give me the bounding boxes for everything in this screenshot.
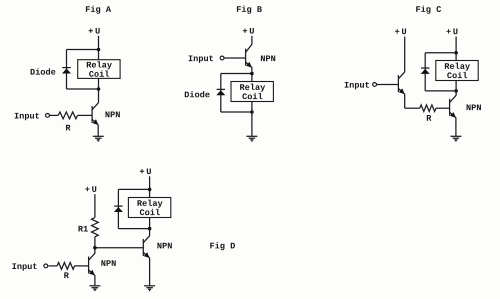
node junction R1 (Fig D) (93, 246, 97, 250)
label R (Fig A) (66, 125, 71, 131)
wire input to resistor (Fig A) (50, 114, 59, 116)
wire +U to collector (Fig B) (251, 36, 253, 45)
wire emitter to resistor (Fig C) (405, 107, 420, 109)
wire resistor to base Q5 (Fig D) (75, 265, 89, 267)
node junction top (Fig C) (454, 51, 458, 55)
label Fig A (86, 6, 111, 14)
resistor R (Fig A) (58, 112, 77, 119)
wire relay bottom to collector (Fig A) (98, 78, 100, 103)
ground (Fig C) (450, 136, 461, 141)
wire top horizontal to diode (Fig D) (118, 188, 149, 190)
net +U (Fig B) (243, 28, 254, 34)
net +U right (Fig C) (446, 29, 457, 35)
ground (Fig B) (246, 136, 257, 141)
wire bottom horizontal to diode (Fig A) (67, 88, 99, 90)
wire +U to R1 (Fig D) (94, 194, 96, 218)
wire input to base (Fig B) (224, 57, 245, 59)
resistor R (Fig C) (420, 105, 436, 112)
wire diode branch vertical (Fig B) (220, 74, 222, 113)
node junction bottom (Fig D) (148, 227, 152, 231)
wire +U to collector Q3 (Fig C) (404, 37, 406, 72)
ground left (Fig D) (89, 286, 100, 291)
label Input (Fig D) (12, 263, 36, 271)
diode D3 flyback (Fig C) (421, 68, 430, 74)
wire node to base Q6 (Fig D) (95, 247, 143, 249)
wire diode branch vertical (Fig D) (117, 189, 119, 228)
node junction top (Fig A) (97, 48, 101, 52)
ground right (Fig D) (144, 286, 155, 291)
wire relay bottom to ground (Fig B) (251, 102, 253, 136)
net +U relay (Fig D) (140, 168, 151, 174)
relay coil K3 box (Fig C) (436, 61, 478, 81)
input terminal (Fig B) (220, 56, 224, 60)
wire input to base Q3 (Fig C) (377, 84, 399, 86)
wire relay bottom to collector Q4 (Fig C) (455, 81, 457, 96)
label Diode (Fig A) (31, 68, 56, 74)
transistor Q4 NPN (Fig C) (450, 96, 456, 118)
wire relay bottom to collector Q6 (Fig D) (149, 218, 151, 236)
wire emitter Q3 down (Fig C) (404, 94, 406, 109)
diode D4 flyback (Fig D) (114, 206, 123, 212)
wire top horizontal to diode (Fig B) (221, 73, 252, 75)
wire emitter Q4 to ground (Fig C) (455, 117, 457, 135)
wire emitter to ground (Fig A) (97, 125, 99, 136)
relay coil K1 box (Fig A) (78, 60, 120, 79)
wire bottom horizontal to diode (Fig D) (118, 228, 149, 230)
label Fig C (416, 6, 441, 14)
label Input (Fig A) (15, 113, 39, 121)
node junction bottom (Fig B) (250, 110, 254, 114)
transistor Q2 NPN (Fig B) (246, 44, 252, 67)
label NPN Q5 (Fig D) (101, 260, 115, 266)
transistor Q3 NPN (Fig C) (398, 72, 404, 94)
label Fig B (237, 6, 262, 14)
wire +U to relay top (Fig A) (98, 36, 100, 60)
net +U left (Fig C) (395, 29, 406, 35)
label Input (Fig B) (189, 55, 213, 63)
relay coil K2 box (Fig B) (231, 82, 273, 102)
label Input (Fig C) (345, 82, 369, 90)
wire +U to relay top (Fig C) (455, 37, 457, 61)
label NPN (Fig B) (261, 55, 275, 61)
input terminal (Fig D) (44, 264, 48, 268)
transistor Q1 NPN (Fig A) (92, 103, 98, 125)
wire R1 to node (Fig D) (94, 237, 96, 254)
wire input to resistor (Fig D) (48, 265, 57, 267)
label R (Fig C) (427, 115, 432, 121)
wire resistor to base Q4 (Fig C) (436, 107, 450, 109)
wire top horizontal to diode (Fig C) (425, 52, 456, 54)
ground (Fig A) (93, 136, 104, 141)
wire top horizontal to diode (Fig A) (67, 49, 99, 51)
relay coil K4 box (Fig D) (128, 198, 170, 218)
resistor R (Fig D) (57, 263, 75, 270)
wire +U to relay top (Fig D) (149, 176, 151, 197)
wire diode branch vertical (Fig A) (66, 50, 68, 90)
node junction bottom (Fig C) (454, 89, 458, 93)
label Diode (Fig B) (185, 91, 210, 97)
wire bottom horizontal to diode (Fig B) (221, 111, 252, 113)
wire diode branch vertical (Fig C) (424, 53, 426, 91)
label NPN (Fig A) (105, 112, 119, 118)
transistor Q5 NPN (Fig D) (89, 253, 95, 275)
wire emitter to relay top (Fig B) (251, 67, 253, 81)
wire emitter Q5 to ground (Fig D) (94, 275, 96, 285)
label Fig D (210, 242, 235, 250)
input terminal (Fig A) (46, 114, 50, 118)
node junction top (Fig B) (250, 72, 254, 76)
transistor Q6 NPN (Fig D) (143, 236, 149, 258)
label NPN Q6 (Fig D) (157, 243, 171, 249)
label R1 (Fig D) (78, 226, 87, 232)
node junction top (Fig D) (148, 188, 152, 192)
diode D1 flyback (Fig A) (62, 68, 71, 74)
label NPN (Fig C) (467, 104, 481, 110)
node junction bottom (Fig A) (97, 87, 101, 91)
wire resistor to base (Fig A) (78, 114, 93, 116)
resistor R1 (Fig D) (92, 218, 99, 237)
diode D2 flyback (Fig B) (216, 89, 225, 95)
label R (Fig D) (64, 272, 69, 278)
wire bottom horizontal to diode (Fig C) (425, 90, 456, 92)
net +U R1 (Fig D) (85, 186, 96, 192)
wire emitter Q6 to ground (Fig D) (149, 258, 151, 286)
net +U (Fig A) (89, 28, 100, 34)
input terminal (Fig C) (373, 83, 377, 87)
